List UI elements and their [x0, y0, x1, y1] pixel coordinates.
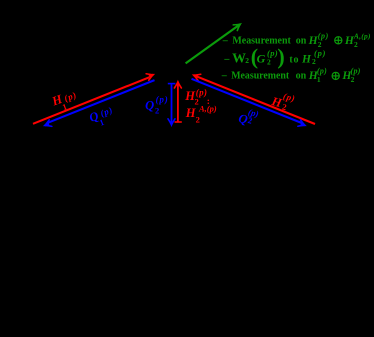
- svg-text:–: –: [221, 70, 228, 81]
- svg-text:2: 2: [245, 56, 249, 65]
- svg-text:2: 2: [155, 105, 159, 115]
- label H2 (right red, on right line): [269, 91, 296, 112]
- wire: left red diagonal line H1: [33, 77, 150, 124]
- arrowhead of right blue line (points down-right): [298, 120, 306, 129]
- arrowhead of right red line (points up-left toward apex): [192, 72, 200, 81]
- svg-text:–: –: [223, 54, 230, 65]
- svg-text:2: 2: [267, 57, 271, 66]
- svg-text:on: on: [296, 36, 307, 47]
- svg-text:Measurement: Measurement: [231, 70, 290, 81]
- svg-text:G: G: [257, 52, 266, 66]
- label Q1 (left blue, on left line): [87, 105, 114, 128]
- svg-text:2: 2: [196, 114, 200, 124]
- svg-text:2: 2: [312, 57, 316, 66]
- label Q2 (center blue, beside vertical arrows): [145, 94, 168, 115]
- svg-text:–: –: [222, 36, 229, 47]
- oplus symbol in legend line 1: [335, 37, 342, 44]
- wire: center blue vertical arrow (down) with top bar: [168, 83, 176, 85]
- svg-text:2: 2: [351, 75, 355, 84]
- label Q2 (right blue, on right line): [237, 107, 260, 127]
- svg-text:1: 1: [317, 75, 321, 84]
- wire: right blue diagonal line Q2: [192, 79, 302, 123]
- svg-text:Q: Q: [145, 99, 154, 113]
- svg-text:2: 2: [354, 40, 358, 49]
- label H2(p): (center red, line 1): [184, 87, 210, 107]
- wire: left blue diagonal line Q1: [47, 80, 155, 123]
- wire: right red diagonal line H2: [197, 77, 315, 124]
- legend line 3: - Measurement on H1(p) + H2(p): [221, 67, 327, 84]
- label H1 (left red, on left line): [49, 90, 78, 112]
- arrowhead of left blue line (points down-left): [44, 120, 52, 129]
- svg-text:A,(p): A,(p): [198, 104, 217, 114]
- oplus symbol in legend line 3: [332, 72, 339, 79]
- svg-text:to: to: [289, 54, 299, 65]
- wire: center red vertical arrow (up) with bottom bar: [175, 121, 182, 123]
- legend line 1: - Measurement on H2(p) + H2A,(p): [222, 32, 329, 50]
- label H2A,(p) (center red, line 2): [185, 104, 217, 125]
- legend line 2: - W2(G2(p)) to H2(p): [223, 44, 326, 69]
- svg-text:H: H: [301, 54, 312, 66]
- svg-text:(p): (p): [156, 94, 169, 104]
- svg-text:): ): [277, 44, 284, 69]
- svg-text:(p): (p): [314, 48, 326, 58]
- wire: green arrow to legend: [186, 26, 238, 63]
- arrowhead of left red line (points up-right toward apex): [146, 71, 154, 80]
- svg-text:on: on: [296, 70, 307, 81]
